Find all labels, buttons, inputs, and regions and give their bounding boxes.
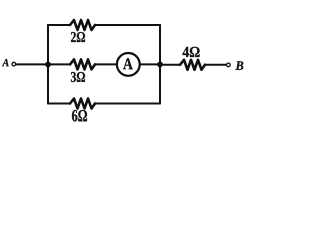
terminal A [12,62,16,66]
wire 3ohm to ammeter [95,63,116,65]
wire bottom-left lead [48,103,70,105]
label 4 ohm [183,47,200,57]
resistor R2 3ohm [70,59,95,69]
ammeter U1 [117,53,140,76]
wire A to left junction [16,63,48,65]
wire middle-left lead [48,63,70,65]
label 3 ohm [71,72,85,82]
resistor R1 2ohm [70,20,95,30]
left bus wire [47,25,49,104]
wire right junction to 4ohm [160,64,180,66]
wire top-right lead [95,24,160,26]
label 2 ohm [71,32,85,42]
terminal B [227,63,231,67]
node B [235,61,243,70]
resistor R3 6ohm [70,99,95,109]
wire ammeter to right junction [141,63,160,65]
right bus wire [159,25,161,104]
junction dot right [157,62,163,68]
wire 4ohm to terminal B [205,64,226,66]
wire bottom-right lead [95,103,160,105]
node A [2,59,9,66]
resistor R4 4ohm [180,60,205,70]
junction dot left [45,62,51,68]
wire top-left lead [48,24,70,26]
label 6 ohm [72,110,87,122]
